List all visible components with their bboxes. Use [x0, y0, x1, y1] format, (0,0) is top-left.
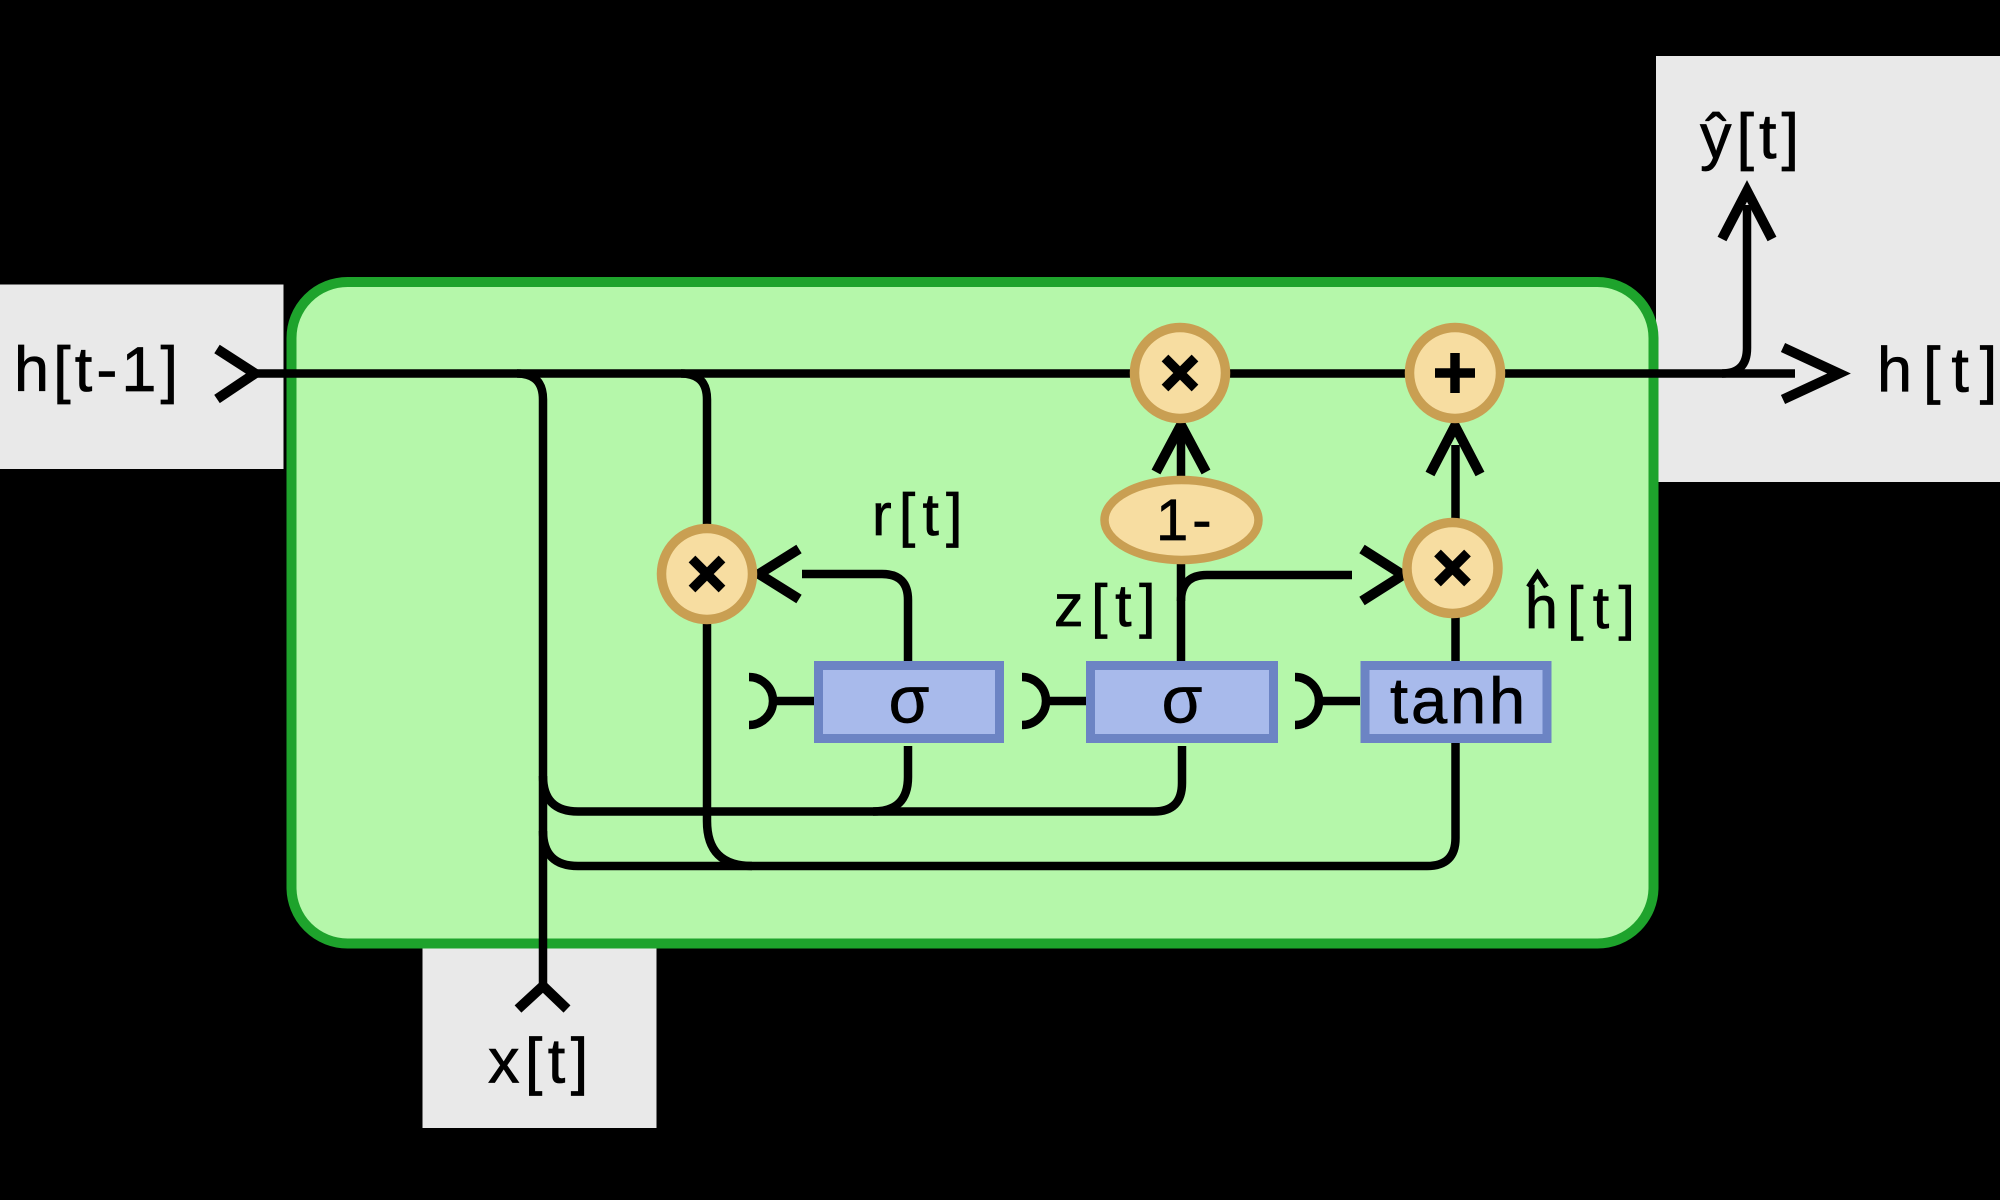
- merge symbol before sigma-z: [1022, 677, 1086, 725]
- arrowhead into upper multiply: [1156, 425, 1206, 472]
- function box sigma-z: [1091, 666, 1274, 739]
- node h[t-1] label box: [0, 285, 284, 470]
- svg-text:tanh: tanh: [1390, 664, 1528, 737]
- GRU cell body: [292, 282, 1654, 944]
- arrowhead into candidate multiply: [1362, 549, 1403, 601]
- wire r[t] from sigma-r to reset multiply: [802, 574, 908, 665]
- svg-text:ŷ[t]: ŷ[t]: [1700, 102, 1804, 172]
- operator candidate multiply circle: [1407, 523, 1498, 614]
- merge symbol before tanh: [1295, 677, 1360, 725]
- wire bus2 branch to tanh: [543, 746, 1456, 866]
- wire stub sigma-r input: [873, 746, 908, 812]
- node y[t]/h[t] label box: [1656, 56, 2000, 482]
- wire reset drop and multiply output: [681, 374, 752, 867]
- arrowhead h[t]: [1783, 348, 1839, 400]
- glyph X in upper multiply: [1165, 358, 1195, 388]
- circumflex hat of h-hat label: [1529, 574, 1547, 588]
- node x[t] label box: [423, 948, 657, 1128]
- svg-text:x[t]: x[t]: [488, 1027, 594, 1097]
- wire input bus drop at x=543 down to x[t]: [517, 374, 543, 987]
- operator upper multiply circle: [1135, 328, 1226, 419]
- input fork x[t]: [518, 986, 567, 1009]
- svg-text:h[t]: h[t]: [1877, 336, 2000, 406]
- glyph X in reset multiply: [692, 559, 722, 589]
- wire candidate h vertical: [1451, 445, 1460, 746]
- glyph plus: [1435, 353, 1475, 393]
- function box tanh: [1365, 666, 1547, 739]
- wire branch to y[t]: [1722, 205, 1747, 374]
- operator 1- ellipse: [1105, 480, 1259, 560]
- svg-text:σ: σ: [889, 663, 930, 737]
- wire h[t-1] to h[t] main horizontal: [255, 369, 1795, 378]
- input fork h[t-1]: [217, 349, 255, 399]
- arrowhead y[t]: [1722, 191, 1772, 239]
- svg-text:σ: σ: [1162, 663, 1203, 737]
- glyph X in candidate multiply: [1438, 553, 1468, 583]
- merge symbol before sigma-r: [749, 677, 814, 725]
- svg-text:1-: 1-: [1156, 488, 1216, 553]
- operator reset multiply circle: [662, 529, 753, 620]
- wire z[t] vertical: [1177, 434, 1186, 665]
- function box sigma-r: [819, 666, 1000, 739]
- wire z[t] branch to candidate multiply: [1181, 575, 1352, 601]
- arrowhead into reset multiply: [759, 549, 799, 599]
- svg-text:z[t]: z[t]: [1054, 573, 1163, 639]
- svg-text:r[t]: r[t]: [872, 482, 970, 548]
- operator plus circle: [1410, 328, 1501, 419]
- svg-text:h[t-1]: h[t-1]: [14, 335, 182, 405]
- wire bus1 branch to sigma-z: [543, 746, 1182, 812]
- arrowhead into plus: [1430, 426, 1480, 474]
